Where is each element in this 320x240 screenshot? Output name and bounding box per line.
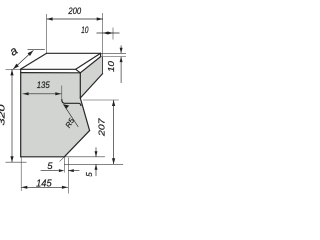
200 dim: [47, 18, 103, 20]
right vertical of sliver: [102, 57, 104, 74]
H10 ext: [64, 163, 123, 165]
thin lines: extension lines: [6, 13, 127, 194]
stub2: [67, 158, 69, 194]
back slant: [80, 74, 102, 98]
45 deg slant to bottom: [64, 131, 89, 157]
320 top ext: [6, 68, 20, 70]
207 dim: [113, 100, 115, 164]
top-left receding edge: [20, 53, 46, 69]
bottom edge: [21, 156, 65, 158]
steep slant: [80, 98, 89, 131]
H2 ext right: [101, 56, 126, 58]
part edges (thick): [20, 53, 102, 157]
10 dim right (vertical, outside arrows): [120, 45, 122, 83]
a dim: [13, 50, 33, 69]
part: top face (white): [20, 53, 100, 69]
dimension texts: [0, 6, 116, 189]
45 slant overshoot: [60, 157, 65, 162]
notch: fillet + horizontal edge: [62, 100, 81, 106]
wall left edge: [20, 69, 22, 157]
320 bottom ext: [6, 161, 27, 163]
part: right side sliver face (gray): [80, 57, 102, 98]
top back edge: [47, 52, 101, 54]
bottom edge ext right: [64, 156, 105, 158]
top front edge: [20, 68, 75, 70]
svg-text:207: 207: [96, 118, 106, 137]
part: left wall front face (gray): [21, 73, 90, 157]
left edge ext down: [20, 157, 22, 191]
10 dim top: line + inside arrows pointing outward: [97, 32, 120, 34]
lower right receding edge: [80, 57, 100, 73]
a ext short horizontal: [28, 48, 45, 50]
dimension lines with arrows: [10, 17, 122, 189]
200 left ext: [46, 14, 48, 53]
top-right receding edge: [76, 53, 101, 69]
200/10 shared ext: [102, 13, 104, 56]
135 right ext stub: [61, 86, 63, 100]
svg-text:10: 10: [81, 25, 88, 35]
207 top ext: [83, 99, 119, 101]
svg-text:5: 5: [47, 161, 53, 172]
wall right vertical: [79, 73, 81, 98]
10 right ext: [112, 28, 114, 40]
H1 ext right: [101, 52, 126, 54]
stub below corner: [63, 157, 65, 173]
5 dim horizontal (outside arrows): [41, 170, 80, 172]
svg-text:5: 5: [85, 172, 94, 177]
5 dim vertical right (outside arrows): [95, 147, 97, 176]
145 dim: [21, 186, 68, 188]
svg-text:10: 10: [106, 61, 116, 72]
320 dim: [11, 69, 13, 162]
wall top edge: [21, 72, 81, 74]
svg-text:145: 145: [36, 178, 52, 189]
chamfer: [76, 69, 81, 73]
svg-text:320: 320: [0, 104, 7, 126]
135 dim: [23, 93, 62, 95]
right end short vertical: [100, 53, 102, 56]
R5 leader: [63, 104, 78, 127]
svg-text:135: 135: [37, 80, 51, 91]
svg-text:200: 200: [68, 6, 82, 17]
